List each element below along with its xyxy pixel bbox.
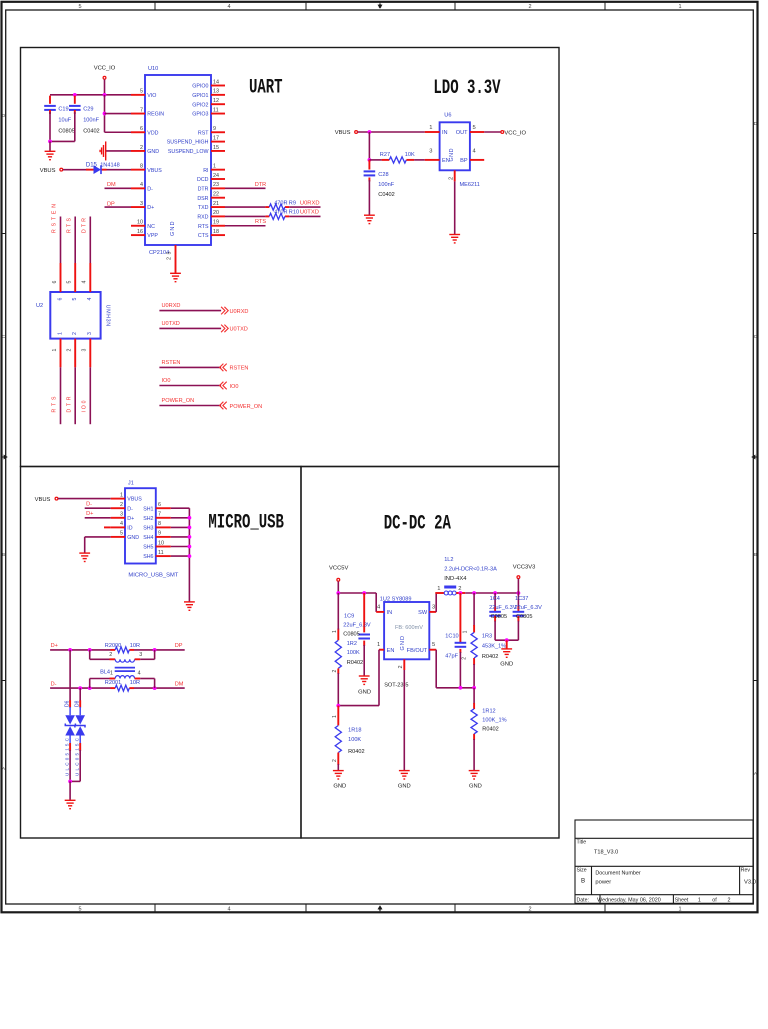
svg-text:1C10: 1C10 [445, 633, 458, 639]
U10 pin 1 RI stub [211, 169, 225, 171]
mid-sheet marker arrow bottom [378, 906, 382, 912]
diode D15 cathode bar [100, 165, 102, 174]
wire 1R12 top [473, 688, 475, 704]
svg-text:100K: 100K [347, 650, 360, 656]
choke bypass right vertical D+ [154, 650, 156, 659]
svg-text:1: 1 [377, 642, 380, 648]
svg-text:1: 1 [52, 349, 58, 352]
wire REGIN branch vertical [104, 95, 106, 132]
svg-text:6: 6 [140, 126, 143, 132]
svg-text:11: 11 [158, 550, 164, 556]
choke bypass left vertical D+ [89, 650, 91, 659]
mid-sheet marker arrow left [2, 455, 8, 459]
resistor 1R2 bottom lead [337, 668, 339, 674]
svg-text:24: 24 [213, 173, 219, 179]
svg-text:GND: GND [147, 149, 159, 155]
wire 1R2 down to EN rail [337, 673, 339, 706]
svg-text:1C4: 1C4 [490, 596, 500, 602]
zone letters left [2, 113, 6, 771]
wire FB rail [436, 687, 474, 689]
svg-text:2: 2 [728, 898, 731, 904]
ground symbol below U10 [170, 273, 181, 281]
U10 pin 10 NC stub [131, 225, 145, 227]
svg-text:RTS: RTS [198, 224, 209, 230]
svg-text:SH1: SH1 [143, 506, 153, 512]
junction TVS join [68, 780, 72, 784]
svg-text:1: 1 [437, 586, 440, 592]
svg-text:5: 5 [67, 281, 73, 284]
svg-text:DM: DM [175, 681, 184, 687]
U2 bottom pin stub [74, 339, 76, 368]
svg-text:R2001: R2001 [105, 680, 121, 686]
capacitor C28 top lead [368, 160, 370, 170]
svg-text:D6: D6 [64, 700, 70, 707]
svg-text:1R18: 1R18 [348, 728, 361, 734]
junction cap rail [48, 140, 52, 144]
mid-sheet marker arrow right [752, 455, 758, 459]
1U2 pin1 EN stub [379, 649, 384, 651]
svg-text:FB/OUT: FB/OUT [407, 648, 428, 654]
resistor R27 right lead [406, 159, 414, 161]
svg-text:VBUS: VBUS [127, 497, 142, 503]
wire caps gnd down [506, 640, 508, 648]
svg-text:D-: D- [51, 681, 57, 687]
svg-text:1: 1 [110, 670, 113, 676]
wire DP to D+ [105, 206, 132, 208]
choke bypass left vertical D- [89, 679, 91, 689]
J1 pin 3 D+ stub [111, 517, 125, 519]
junction caps gnd [505, 638, 509, 642]
junction 1C9 branch [362, 591, 366, 595]
svg-text:C0402: C0402 [83, 128, 99, 134]
wire D- to J1 [85, 507, 111, 509]
resistor R27 left lead [382, 159, 390, 161]
svg-text:RI: RI [203, 168, 208, 174]
junction 1R3 branch [472, 591, 476, 595]
capacitor 1C37 bottom lead [517, 616, 519, 622]
TVS diode D17 lower triangle [75, 726, 85, 735]
TVS diode D17 top lead [79, 700, 81, 707]
svg-text:U0RXD: U0RXD [230, 309, 249, 315]
capacitor C28 bottom lead [368, 178, 370, 182]
U2 top pin 5 stub [74, 263, 76, 292]
U10 pin 19 RTS stub [211, 225, 225, 227]
choke bottom winding lead right [135, 678, 141, 680]
wire DTR [225, 187, 266, 189]
wire D- down to TVS D17 [79, 688, 81, 701]
wire R10 to end [289, 215, 320, 217]
svg-text:3: 3 [87, 332, 93, 335]
J1 pin 11 SH6 stub [156, 555, 171, 557]
svg-text:GND: GND [358, 689, 371, 695]
svg-text:D+: D+ [127, 516, 134, 522]
svg-text:9: 9 [213, 126, 216, 132]
wire REGIN [105, 113, 132, 115]
svg-text:U0TXD: U0TXD [162, 321, 180, 327]
svg-text:20: 20 [213, 210, 219, 216]
capacitor C19 [44, 106, 56, 110]
svg-text:U0TXD: U0TXD [300, 210, 319, 216]
wire D+ to J1 [85, 517, 111, 519]
junction shield bus [188, 535, 192, 539]
svg-text:J1: J1 [128, 480, 134, 486]
U2 bottom pin stub [60, 339, 62, 368]
svg-text:GND: GND [469, 784, 482, 790]
wire dot to R27 [369, 159, 381, 161]
junction D- choke left [88, 686, 92, 690]
resistor R2000 leads [111, 649, 116, 651]
junction 1C10 bottom [459, 686, 463, 690]
svg-text:1R2: 1R2 [347, 641, 357, 647]
U10 pin 18 CTS stub [211, 234, 225, 236]
svg-text:D8: D8 [74, 700, 80, 707]
inductor 1L2 bar [444, 586, 456, 589]
svg-text:13: 13 [213, 89, 219, 95]
ground symbol below U6 [449, 235, 460, 243]
svg-text:SH5: SH5 [143, 545, 153, 551]
U6 pin3 EN stub [425, 159, 440, 161]
svg-text:D-: D- [147, 186, 153, 192]
svg-text:2: 2 [109, 652, 112, 658]
U10 pin 15 SUSPEND_LOW stub [211, 150, 225, 152]
svg-text:U0TXD: U0TXD [230, 327, 248, 333]
svg-text:100K_1%: 100K_1% [482, 718, 506, 724]
svg-text:22uF_6.3V: 22uF_6.3V [343, 622, 371, 628]
wire 1C37 from rail [517, 593, 519, 608]
svg-text:4: 4 [227, 906, 230, 912]
svg-text:RSTEN: RSTEN [230, 366, 249, 372]
svg-text:RTS: RTS [66, 217, 72, 233]
svg-text:R27: R27 [380, 152, 390, 158]
svg-text:Date:: Date: [577, 898, 589, 904]
svg-text:DP: DP [107, 202, 115, 208]
svg-text:4: 4 [140, 182, 143, 188]
zone letters right [754, 121, 758, 776]
svg-text:DSR: DSR [197, 196, 208, 202]
svg-text:15: 15 [213, 145, 219, 151]
wire VIO rail [50, 94, 131, 96]
TVS diode D16 upper triangle [65, 715, 75, 724]
svg-text:SH2: SH2 [143, 516, 153, 522]
svg-text:SH6: SH6 [143, 554, 153, 560]
wire SW to inductor [434, 592, 437, 594]
ground symbol below 1U2 [399, 771, 410, 779]
junction 1R3 bottom [472, 686, 476, 690]
U10 pin 23 DTR stub [211, 187, 225, 189]
svg-text:MICRO_USB_SMT: MICRO_USB_SMT [128, 572, 178, 578]
capacitor C19 top lead [49, 96, 51, 104]
svg-text:ID: ID [127, 526, 132, 532]
svg-text:D-: D- [86, 502, 92, 508]
svg-text:C0805: C0805 [516, 614, 532, 620]
svg-text:5: 5 [72, 298, 78, 301]
1U2 pin3 SW stub [429, 611, 436, 613]
svg-text:47pF: 47pF [445, 653, 458, 659]
svg-text:IND-4X4: IND-4X4 [444, 576, 467, 582]
wire 1C37 to join [517, 621, 519, 640]
svg-text:5: 5 [140, 89, 143, 95]
svg-text:2: 2 [332, 759, 338, 762]
ground symbol below C19 [45, 151, 56, 159]
svg-text:1: 1 [429, 125, 432, 131]
svg-text:2: 2 [462, 657, 468, 660]
resistor 1R18 top lead [337, 706, 339, 726]
capacitor 1C10 bottom lead [459, 649, 461, 653]
wire SH6 to shield bus [171, 507, 190, 509]
junction C28 top [368, 158, 372, 162]
junction VCC5V node [336, 591, 340, 595]
svg-text:1: 1 [678, 906, 681, 912]
wire FB/OUT down [435, 650, 437, 688]
resistor R9 leads [265, 206, 269, 208]
svg-text:1C9: 1C9 [344, 613, 354, 619]
capacitor 1C4 [489, 612, 501, 616]
ground symbol rotated at U10 pin2 [100, 141, 106, 160]
svg-text:CTS: CTS [198, 233, 209, 239]
wire TVS join down [69, 781, 71, 800]
svg-text:C0805: C0805 [491, 614, 507, 620]
svg-text:2: 2 [398, 665, 404, 668]
svg-text:UART: UART [249, 76, 283, 99]
svg-text:DTR: DTR [66, 396, 72, 412]
TVS diode D16 bottom lead [69, 743, 71, 751]
svg-text:IN: IN [387, 610, 393, 616]
svg-text:D+: D+ [86, 511, 93, 517]
svg-text:2: 2 [120, 502, 123, 508]
wire VCC5V down [337, 581, 339, 593]
svg-text:R0402: R0402 [348, 749, 364, 755]
ground symbol below J1 gnd [79, 553, 90, 561]
wire net RTS top vertical [74, 217, 76, 264]
resistor R10 zigzag [269, 213, 285, 219]
wire IN drop [375, 593, 377, 612]
svg-text:VBUS: VBUS [40, 168, 56, 174]
svg-text:SH3: SH3 [143, 526, 153, 532]
U10 pin 14 GPIO0 stub [211, 85, 225, 87]
svg-text:100K: 100K [348, 737, 361, 743]
svg-text:4: 4 [87, 298, 93, 301]
off-page connector chevron in RSTEN [220, 364, 227, 372]
junction D- TVS [78, 686, 82, 690]
svg-text:OUT: OUT [456, 130, 468, 136]
J1 pin 4 ID stub [111, 526, 125, 528]
svg-text:C29: C29 [83, 106, 93, 112]
svg-text:ME6211: ME6211 [460, 182, 480, 188]
svg-text:C28: C28 [378, 172, 388, 178]
svg-text:VDD: VDD [147, 130, 158, 136]
svg-text:U2: U2 [36, 303, 43, 309]
choke bypass right vertical D- [154, 679, 156, 689]
svg-text:GND: GND [398, 784, 411, 790]
svg-text:RXD: RXD [197, 215, 208, 221]
wire EN rail [338, 705, 379, 707]
U6 pin1 IN stub [425, 131, 440, 133]
svg-text:11: 11 [213, 107, 219, 113]
capacitor 1C10 [455, 643, 467, 647]
capacitor 1C9 [358, 635, 370, 639]
svg-text:C19: C19 [58, 106, 68, 112]
junction D+ choke right [153, 648, 157, 652]
svg-text:SUSPEND_LOW: SUSPEND_LOW [168, 149, 209, 155]
wire TVS join horizontal [70, 780, 80, 782]
svg-text:R10: R10 [289, 210, 299, 216]
svg-text:2: 2 [72, 332, 78, 335]
svg-text:B: B [581, 878, 585, 885]
svg-text:6: 6 [158, 502, 161, 508]
svg-text:GND: GND [127, 535, 139, 541]
svg-text:RSTEN: RSTEN [162, 360, 181, 366]
off-page wire U0TXD [159, 327, 221, 329]
resistor 1R12 zigzag [471, 709, 477, 734]
svg-text:5: 5 [432, 642, 435, 648]
svg-text:10R: 10R [130, 643, 140, 649]
capacitor C29 bottom lead [74, 110, 76, 114]
U2 top pin 6 stub [60, 263, 62, 292]
svg-text:IO0: IO0 [230, 384, 239, 390]
svg-text:GPIO1: GPIO1 [192, 93, 208, 99]
svg-text:R0402: R0402 [482, 727, 498, 733]
zone ticks bottom [155, 904, 605, 912]
capacitor 1C37 [513, 612, 525, 616]
svg-text:17: 17 [213, 135, 219, 141]
svg-text:5: 5 [78, 906, 81, 912]
resistor 1R12 leads [473, 703, 475, 709]
resistor 1R2 zigzag [335, 640, 341, 668]
U10 pin 24 DCD stub [211, 178, 225, 180]
U10 pin 6 VDD stub [131, 131, 145, 133]
J1 ID pin no-connect stub [104, 526, 111, 528]
resistor R2001 zigzag [115, 685, 129, 691]
svg-text:22uF_6.3V: 22uF_6.3V [515, 605, 543, 611]
U10 pin 5 VIO stub [131, 94, 145, 96]
J1 pin 10 SH5 stub [156, 546, 171, 548]
wire D- line [50, 687, 110, 689]
junction 1C4 branch [493, 591, 497, 595]
svg-text:3: 3 [139, 652, 142, 658]
svg-text:8: 8 [158, 521, 161, 527]
wire GND pin J1 vertical [84, 537, 86, 553]
diode D15 leads [86, 169, 94, 171]
choke BL4 top winding arcs [115, 659, 134, 662]
wire net RSTEN top vertical [60, 217, 62, 264]
svg-text:4: 4 [120, 521, 123, 527]
terminal VBUS circle USB [55, 497, 58, 500]
zone numbers bottom [78, 906, 681, 912]
svg-text:VCC3V3: VCC3V3 [513, 565, 536, 571]
mid-sheet marker arrow top [378, 2, 382, 8]
wire GND pin J1 [85, 536, 111, 538]
svg-text:1: 1 [57, 332, 63, 335]
svg-text:4: 4 [227, 4, 230, 10]
ground symbol below 1R12 [469, 771, 480, 779]
1U2 bottom pin2 stub [403, 659, 405, 670]
capacitor 1C10 top lead [459, 593, 461, 643]
wire RTS [225, 225, 266, 227]
inductor 1L2 right lead [456, 592, 465, 594]
power VCC_IO terminal [103, 76, 106, 79]
ground symbol below 1C4/1C37 [501, 649, 512, 657]
U10 pin 12 GPIO2 stub [211, 103, 225, 105]
U10 pin 13 GPIO1 stub [211, 94, 225, 96]
U10 pin 4 D- stub [131, 187, 145, 189]
wire net DTR bottom vertical [74, 367, 76, 424]
resistor R2000 zigzag [115, 647, 129, 653]
svg-text:1: 1 [332, 630, 338, 633]
svg-text:10K: 10K [405, 152, 415, 158]
wire net RTS bottom vertical [60, 367, 62, 424]
svg-text:Wednesday, May 06, 2020: Wednesday, May 06, 2020 [597, 898, 661, 904]
TVS diode D16 top lead [69, 700, 71, 707]
U10 pin 7 REGIN stub [131, 113, 145, 115]
svg-text:FB: 600mV: FB: 600mV [395, 625, 423, 631]
svg-text:1: 1 [678, 4, 681, 10]
wire D+ down to TVS D16 [69, 650, 71, 701]
svg-text:2: 2 [332, 670, 338, 673]
wire 1U2 gnd down [403, 670, 405, 770]
svg-text:TXD: TXD [198, 205, 209, 211]
wire 1C4 to join [494, 621, 496, 640]
svg-text:D15: D15 [86, 162, 98, 168]
junction D+ TVS [68, 648, 72, 652]
wire 1C4/1C37 join [495, 639, 518, 641]
power VCC5V terminal [337, 578, 340, 581]
choke bottom winding wire left [90, 678, 110, 680]
choke top winding lead right [135, 658, 141, 660]
svg-text:3: 3 [140, 201, 143, 207]
svg-text:470R: 470R [274, 210, 287, 216]
capacitor C29 [69, 106, 81, 110]
terminal VCC_IO circle LDO [501, 131, 504, 134]
J1 pin 6 SH1 stub [156, 507, 171, 509]
svg-text:DTR: DTR [198, 186, 209, 192]
svg-text:GND: GND [170, 222, 176, 237]
svg-text:2: 2 [67, 349, 73, 352]
svg-text:C0402: C0402 [378, 192, 394, 198]
zone ticks left [2, 234, 6, 681]
wire VBUS to diode [63, 169, 89, 171]
zone ticks right [753, 234, 757, 681]
wire 1C10 down [459, 652, 461, 688]
svg-text:4: 4 [138, 670, 141, 676]
svg-text:D+: D+ [147, 205, 154, 211]
transistor block U2 body [50, 292, 100, 339]
ground symbol below C28 [364, 215, 375, 223]
svg-text:18: 18 [213, 229, 219, 235]
wire R2001 to DM [134, 687, 185, 689]
capacitor C19 bottom lead [49, 110, 51, 114]
wire C19 bottom [49, 112, 51, 141]
svg-text:1C37: 1C37 [515, 596, 528, 602]
terminal VBUS circle [60, 168, 63, 171]
capacitor C29 top lead [74, 96, 76, 104]
section box DC-DC [301, 467, 559, 839]
svg-text:R0402: R0402 [482, 654, 498, 660]
svg-text:22: 22 [213, 192, 219, 198]
svg-text:GPIO2: GPIO2 [192, 102, 208, 108]
svg-text:9: 9 [158, 531, 161, 537]
svg-text:U6: U6 [444, 113, 451, 119]
wire net DTR top vertical [89, 217, 91, 264]
capacitor 1C9 bottom lead [363, 641, 365, 646]
TVS diode D17 middle bar [75, 724, 85, 728]
U2 top pin 4 stub [89, 263, 91, 292]
choke top winding wire left [90, 658, 110, 660]
capacitor C28 [364, 171, 376, 175]
svg-text:1: 1 [213, 163, 216, 169]
wire 1R12 down [473, 739, 475, 770]
wire 1R18 down [337, 764, 339, 770]
resistor 1R18 bottom lead [337, 753, 339, 766]
